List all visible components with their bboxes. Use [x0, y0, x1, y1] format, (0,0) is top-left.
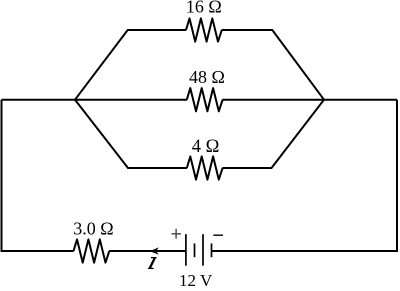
svg-text:3.0 Ω: 3.0 Ω [73, 219, 113, 239]
svg-text:16 Ω: 16 Ω [186, 0, 222, 16]
svg-text:4 Ω: 4 Ω [192, 137, 220, 157]
svg-text:12 V: 12 V [179, 271, 213, 286]
svg-text:48 Ω: 48 Ω [189, 67, 225, 87]
